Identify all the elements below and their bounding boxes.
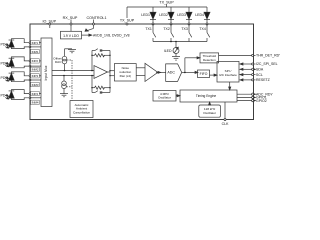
wire LDO output AVDD_1V8 DVDD_1V8 (82, 34, 92, 36)
svg-text:INP4: INP4 (32, 92, 39, 96)
wire SPI to timing engine (229, 82, 231, 90)
svg-text:TX_SUP: TX_SUP (120, 19, 135, 23)
svg-text:INM4: INM4 (32, 101, 39, 105)
wire TX common rail (153, 41, 207, 43)
svg-text:TX2: TX2 (163, 27, 169, 31)
offset DAC lower current source (62, 76, 67, 94)
label 128 kHz Oscillator (203, 107, 216, 115)
svg-text:IO_SUP: IO_SUP (43, 19, 57, 23)
svg-text:I2C Interface: I2C Interface (219, 73, 237, 77)
svg-text:Oscillator: Oscillator (158, 96, 171, 100)
op-amp buffer (145, 63, 161, 81)
svg-text:DAC: DAC (55, 60, 62, 64)
label INP4 (31, 91, 40, 95)
svg-text:LED2: LED2 (159, 13, 168, 17)
svg-text:INM3: INM3 (32, 83, 39, 87)
svg-text:Timing Engine: Timing Engine (196, 94, 216, 98)
ground offset DAC upper (68, 50, 76, 53)
svg-text:SDA: SDA (256, 68, 264, 72)
block Threshold Detection (200, 53, 219, 63)
TIA feedback lower Rf Cf (91, 76, 110, 95)
block FIFO (198, 70, 210, 78)
wire ADC output node (182, 71, 198, 73)
svg-text:CONTROL1: CONTROL1 (86, 16, 106, 20)
svg-text:TX_SUP: TX_SUP (159, 1, 174, 5)
photodiode PD4 (5, 90, 41, 100)
label INM3 (31, 82, 40, 86)
TX3 driver switch (189, 24, 192, 42)
label 4 MHz Oscillator (158, 92, 171, 100)
pin CLK (224, 102, 226, 121)
svg-text:LED3: LED3 (177, 13, 186, 17)
label INM4 (31, 100, 40, 104)
pin I2C_SPI_SEL (240, 63, 256, 65)
label INP2 (31, 59, 40, 63)
label INP3 (31, 74, 40, 78)
svg-text:INM1: INM1 (32, 50, 39, 54)
op-amp TIA (94, 66, 114, 79)
svg-text:INM2: INM2 (32, 68, 39, 72)
svg-text:Oscillator: Oscillator (203, 111, 216, 115)
svg-text:SCL: SCL (256, 73, 263, 77)
wire LED supply rail (127, 4, 207, 7)
wire FIFO to SPI interface (210, 74, 218, 76)
pin TX_SUP (chip pin) (126, 7, 128, 25)
pin GPIO1 (237, 96, 256, 98)
wire ADC to threshold detection (185, 57, 200, 73)
block Automatic Ambient Cancellation (70, 101, 93, 118)
pin CONTROL1 (85, 20, 95, 32)
svg-text:TX1: TX1 (145, 27, 151, 31)
photodiode PD2 (5, 57, 41, 68)
input mux (41, 38, 52, 107)
ADC (166, 64, 182, 82)
label Offset DAC (53, 57, 62, 64)
svg-text:TX3: TX3 (181, 27, 187, 31)
svg-text:I2C_SPI_SEL: I2C_SPI_SEL (256, 62, 278, 66)
pin ADC_RDY (237, 93, 256, 95)
wire dashed ambient cancellation control (67, 60, 73, 101)
pin RX_SUP (70, 20, 72, 32)
label Noise reduction filter (x4) (119, 66, 131, 78)
label INP1 (31, 41, 40, 45)
label SPI I2C Interface (219, 69, 237, 77)
svg-text:PD1: PD1 (1, 43, 8, 47)
pin SDA (240, 68, 256, 70)
ground offset DAC lower (60, 94, 68, 97)
pin GPIO2 (237, 100, 256, 102)
svg-text:1.9 V LDO: 1.9 V LDO (63, 34, 79, 38)
label Threshold Detection (203, 54, 217, 62)
svg-text:LED1: LED1 (141, 13, 150, 17)
wire 128k oscillator to timing engine (209, 102, 211, 105)
block 4 MHz oscillator (153, 91, 176, 102)
photodiode PD3 (5, 72, 41, 82)
label INM2 (31, 67, 40, 71)
svg-text:filter (x4): filter (x4) (120, 74, 131, 78)
offset DAC upper current source (62, 49, 72, 71)
label INM1 (31, 49, 40, 53)
wire oscillator to timing engine (176, 95, 180, 97)
pin SCL (240, 74, 256, 76)
svg-text:INP1: INP1 (32, 41, 39, 45)
svg-text:Input Mux: Input Mux (44, 65, 48, 80)
wire amp to ADC (158, 71, 166, 73)
svg-text:PD2: PD2 (1, 61, 8, 65)
pin THR_DET_RDY (219, 54, 256, 56)
block Timing Engine (180, 90, 237, 102)
label TX_SUP pin (120, 18, 136, 23)
svg-text:RESETZ: RESETZ (256, 78, 271, 82)
block SPI I2C interface (217, 61, 239, 82)
svg-text:ILED: ILED (164, 49, 172, 53)
ground LED driver (172, 57, 180, 61)
svg-text:CLK: CLK (222, 122, 229, 126)
wire mux to TIA negative rail (52, 75, 94, 77)
wires filter to buffer amp (136, 68, 145, 76)
svg-text:PD4: PD4 (1, 94, 8, 98)
svg-text:LED4: LED4 (195, 13, 204, 17)
pin RESETZ (240, 79, 256, 81)
svg-text:RX_SUP: RX_SUP (63, 16, 78, 20)
svg-text:Detection: Detection (203, 58, 216, 62)
label Automatic Ambient Cancellation (73, 103, 90, 115)
wire mux to TIA positive rail (52, 70, 94, 72)
TX1 driver switch (153, 24, 156, 42)
block 128 kHz oscillator (199, 105, 221, 117)
svg-text:INP3: INP3 (32, 74, 39, 78)
svg-text:Cancellation: Cancellation (73, 110, 90, 114)
LED2 (168, 7, 174, 25)
svg-text:TX4: TX4 (199, 27, 205, 31)
svg-text:GPIO2: GPIO2 (256, 99, 267, 103)
pin IO_SUP (49, 23, 51, 28)
svg-text:PD3: PD3 (1, 76, 8, 80)
TX4 driver switch (207, 24, 210, 42)
TIA feedback upper Rf Cf (91, 49, 110, 71)
svg-text:THR_DET_RDY: THR_DET_RDY (256, 54, 280, 58)
current source ILED (173, 42, 179, 57)
svg-text:AVDD_1V8, DVDD_1V8: AVDD_1V8, DVDD_1V8 (93, 33, 130, 37)
chip boundary (30, 24, 254, 120)
LED3 (186, 7, 192, 25)
LED4 (204, 7, 210, 25)
svg-text:FIFO: FIFO (200, 72, 208, 76)
LED1 (150, 7, 156, 25)
TX2 driver switch (171, 24, 174, 42)
svg-text:ADC: ADC (167, 71, 175, 75)
block Noise reduction filter (114, 64, 136, 81)
regulator 1.9V LDO (61, 31, 82, 39)
svg-text:INP2: INP2 (32, 59, 39, 63)
photodiode PD1 (5, 39, 41, 49)
